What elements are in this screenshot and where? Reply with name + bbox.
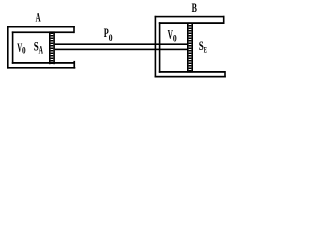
cylinder A outer left wall line: [7, 26, 9, 69]
cylinder A inner bottom wall line: [12, 62, 75, 64]
cylinder A top-right wall cap: [73, 26, 75, 33]
connecting rod/tube lower line: [55, 49, 188, 51]
cylinder A outer top wall line: [7, 26, 75, 28]
piston A right edge: [53, 31, 55, 64]
svg-text:0: 0: [109, 33, 113, 44]
connecting rod/tube upper line: [55, 43, 188, 45]
cylinder B inner bottom wall line: [159, 71, 225, 73]
cylinder B inner top wall line: [159, 22, 225, 24]
cylinder A bottom-right wall cap: [73, 61, 75, 69]
piston A left edge: [49, 31, 51, 64]
piston B right edge: [191, 23, 193, 73]
cylinder A inner left wall line: [12, 31, 14, 63]
cylinder B outer left wall line: [155, 16, 157, 78]
cylinder B bottom-right wall cap: [224, 71, 226, 78]
svg-text:A: A: [39, 44, 44, 56]
piston A hatched core: [51, 31, 54, 64]
cylinder A outer bottom wall line: [7, 67, 75, 69]
piston B left edge: [187, 23, 189, 73]
cylinder A inner top wall line: [12, 31, 75, 33]
svg-text:A: A: [36, 10, 41, 24]
cylinder B outer top wall line: [155, 16, 225, 18]
svg-text:0: 0: [173, 34, 177, 45]
piston B hatched core: [189, 23, 192, 73]
cylinder B inner left wall line: [159, 22, 161, 73]
cylinder B outer bottom wall line: [155, 76, 226, 78]
cylinder B top-right wall cap: [223, 16, 225, 24]
diagram: two connected cylinders A and B with pistons: [0, 0, 238, 84]
svg-text:B: B: [192, 1, 198, 15]
svg-text:0: 0: [22, 46, 26, 57]
svg-text:E: E: [204, 45, 208, 54]
